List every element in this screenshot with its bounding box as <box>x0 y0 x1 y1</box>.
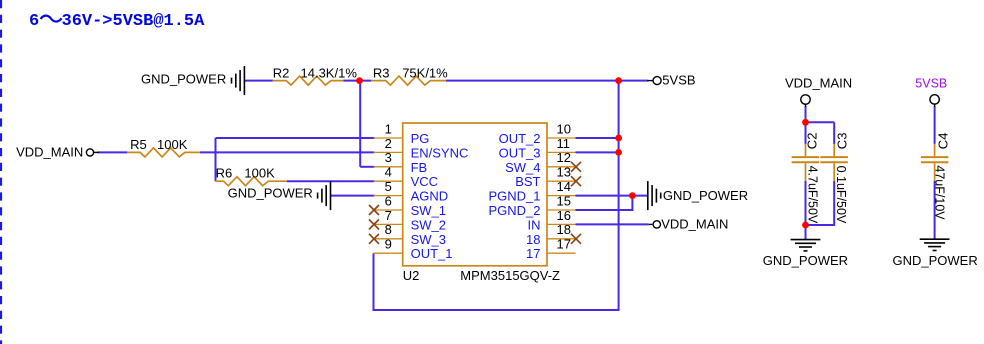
svg-text:SW_1: SW_1 <box>411 203 446 218</box>
svg-text:100K: 100K <box>244 166 275 181</box>
svg-text:AGND: AGND <box>411 189 449 204</box>
svg-text:GND_POWER: GND_POWER <box>663 188 748 203</box>
svg-text:GND_POWER: GND_POWER <box>763 253 848 268</box>
svg-text:OUT_1: OUT_1 <box>411 246 453 261</box>
svg-text:VDD_MAIN: VDD_MAIN <box>661 216 728 231</box>
svg-text:PGND_2: PGND_2 <box>488 203 540 218</box>
svg-text:R3: R3 <box>373 66 390 81</box>
svg-text:6: 6 <box>29 12 39 31</box>
svg-text:R6: R6 <box>216 166 233 181</box>
svg-text:5VSB: 5VSB <box>915 77 947 91</box>
svg-text:16: 16 <box>557 208 571 223</box>
svg-text:IN: IN <box>528 217 541 232</box>
svg-text:VDD_MAIN: VDD_MAIN <box>16 145 83 160</box>
svg-text:9: 9 <box>385 237 392 252</box>
svg-text:C2: C2 <box>805 133 820 150</box>
svg-text:18: 18 <box>557 222 571 237</box>
svg-text:4: 4 <box>385 165 392 180</box>
svg-text:100K: 100K <box>157 137 188 152</box>
svg-text:5: 5 <box>385 179 392 194</box>
svg-text:R5: R5 <box>130 137 147 152</box>
svg-text:R2: R2 <box>273 66 290 81</box>
svg-text:U2: U2 <box>403 268 420 283</box>
svg-text:OUT_3: OUT_3 <box>499 145 541 160</box>
svg-text:4.7uF/50V: 4.7uF/50V <box>806 166 820 224</box>
svg-text:1: 1 <box>385 121 392 136</box>
svg-text:18: 18 <box>526 232 540 247</box>
svg-text:PGND_1: PGND_1 <box>488 189 540 204</box>
svg-text:17: 17 <box>526 246 540 261</box>
svg-text:13: 13 <box>557 165 571 180</box>
svg-text:GND_POWER: GND_POWER <box>228 186 313 201</box>
svg-text:PG: PG <box>411 131 430 146</box>
svg-text:7: 7 <box>385 208 392 223</box>
svg-text:8: 8 <box>385 222 392 237</box>
svg-text:VCC: VCC <box>411 174 438 189</box>
svg-text:0.1uF/50V: 0.1uF/50V <box>834 166 848 224</box>
svg-text:2: 2 <box>385 136 392 151</box>
svg-text:EN/SYNC: EN/SYNC <box>411 145 469 160</box>
svg-text:MPM3515GQV-Z: MPM3515GQV-Z <box>460 268 560 283</box>
svg-text:12: 12 <box>557 150 571 165</box>
svg-text:11: 11 <box>557 136 571 151</box>
svg-text:47uF/10V: 47uF/10V <box>933 165 947 220</box>
svg-text:GND_POWER: GND_POWER <box>141 71 226 86</box>
svg-text:3: 3 <box>385 150 392 165</box>
svg-text:VDD_MAIN: VDD_MAIN <box>785 76 852 91</box>
svg-text:14.3K/1%: 14.3K/1% <box>301 66 358 81</box>
svg-text:36V->5VSB@1.5A: 36V->5VSB@1.5A <box>62 12 206 31</box>
svg-text:BST: BST <box>515 174 540 189</box>
svg-text:5VSB: 5VSB <box>662 73 695 88</box>
svg-text:SW_2: SW_2 <box>411 217 446 232</box>
svg-text:GND_POWER: GND_POWER <box>893 253 978 268</box>
svg-text:FB: FB <box>411 160 428 175</box>
svg-text:14: 14 <box>557 179 571 194</box>
svg-text:SW_4: SW_4 <box>505 160 540 175</box>
svg-text:C3: C3 <box>835 133 850 150</box>
svg-text:SW_3: SW_3 <box>411 232 446 247</box>
svg-text:OUT_2: OUT_2 <box>499 131 541 146</box>
svg-text:17: 17 <box>557 237 571 252</box>
svg-text:6: 6 <box>385 193 392 208</box>
svg-text:75K/1%: 75K/1% <box>402 66 448 81</box>
svg-text:10: 10 <box>557 121 571 136</box>
svg-text:15: 15 <box>557 193 571 208</box>
svg-text:C4: C4 <box>936 133 951 150</box>
